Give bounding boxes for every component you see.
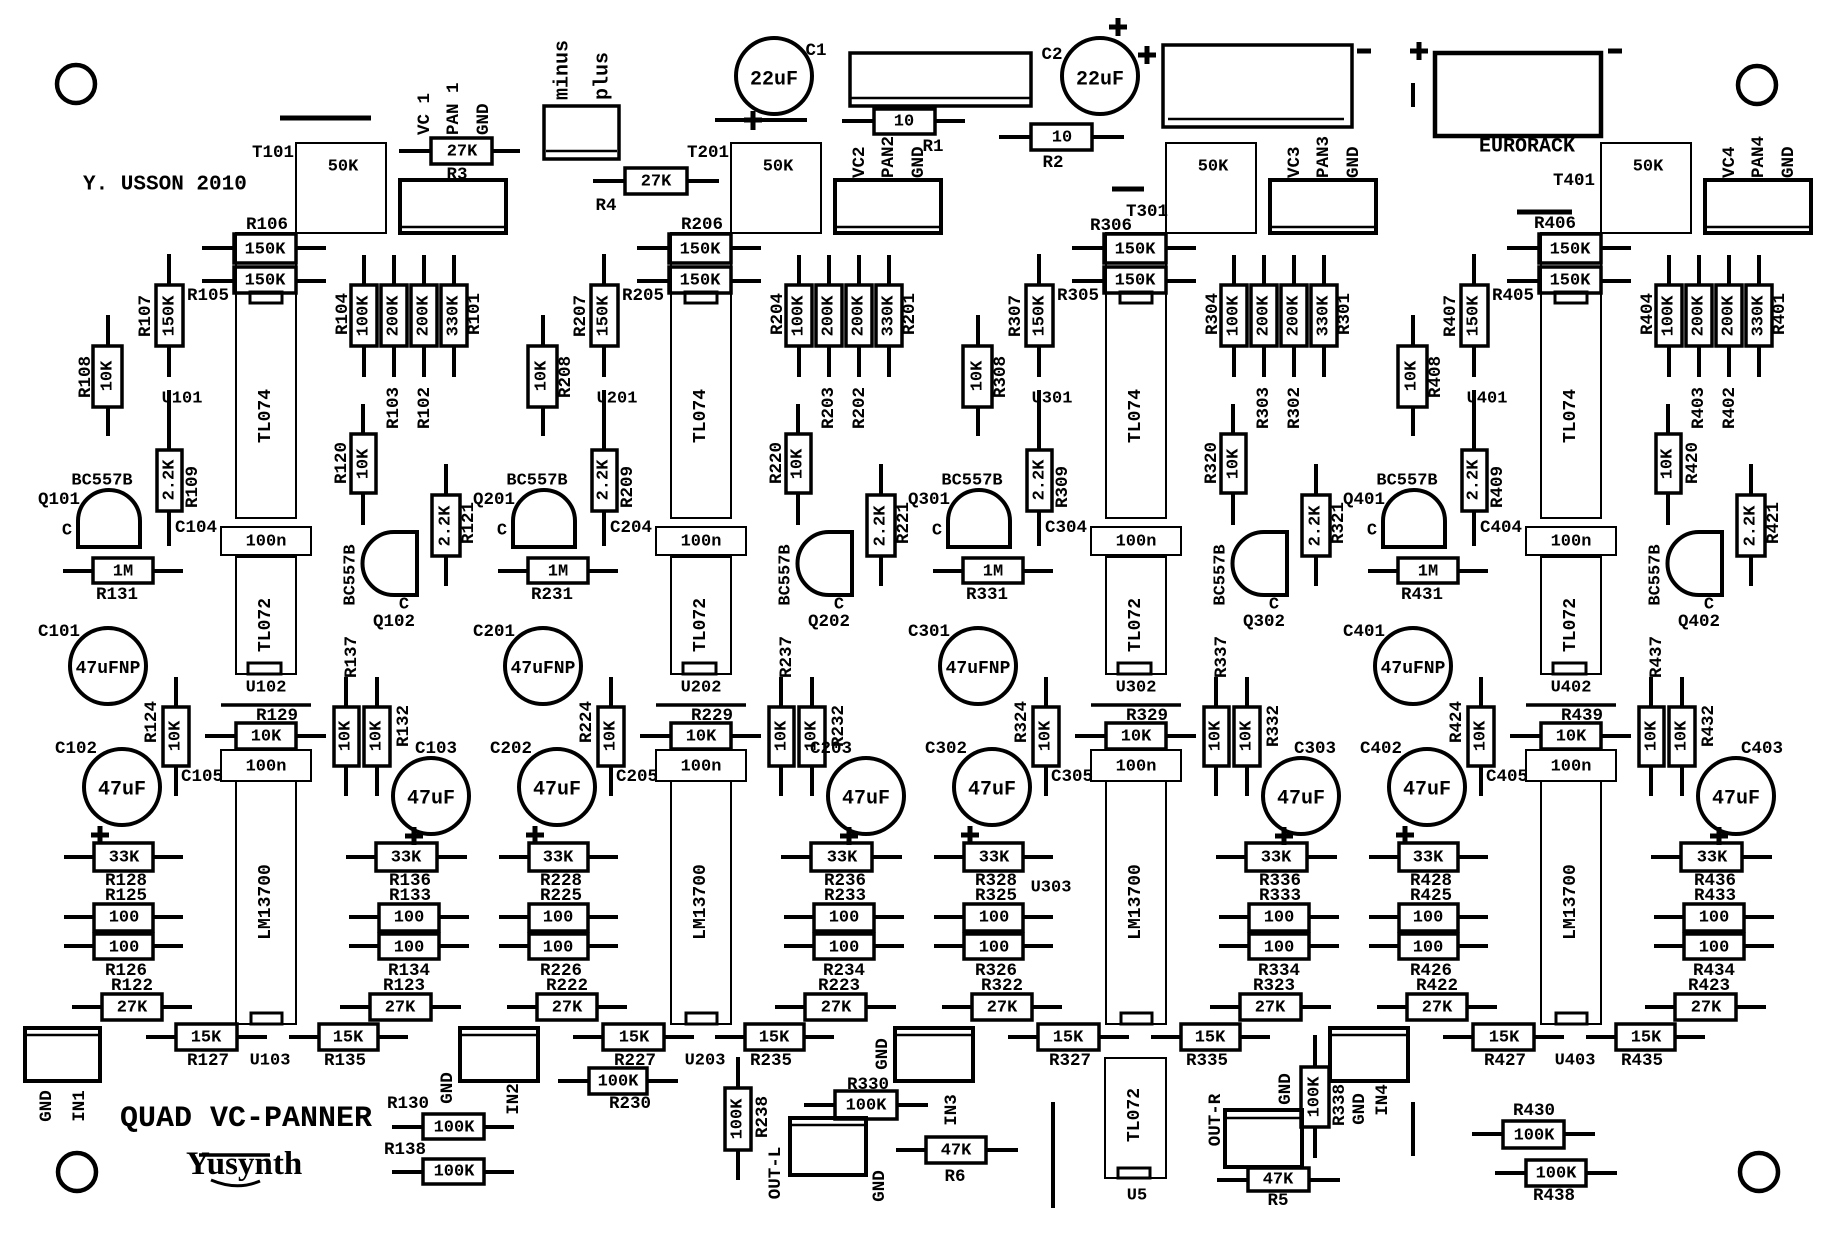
connector IN2 [460, 1028, 538, 1081]
svg-text:minus: minus [552, 40, 575, 100]
capacitor C105 [181, 750, 311, 787]
svg-text:PAN2: PAN2 [879, 136, 899, 178]
capacitor C401 [1343, 622, 1451, 704]
resistor R320 [1202, 404, 1246, 525]
capacitor C404 [1480, 518, 1616, 555]
resistor R4 [593, 168, 719, 216]
mounting hole top-left [57, 65, 95, 103]
svg-text:100n: 100n [1116, 758, 1157, 777]
transistor Q401 [1343, 472, 1445, 548]
minus mark above T301 [1112, 187, 1144, 192]
svg-text:GND: GND [1779, 146, 1799, 178]
resistor R129 [205, 706, 326, 749]
svg-text:GND: GND [474, 103, 494, 135]
IC U103 [236, 781, 296, 1071]
svg-text:R103: R103 [384, 387, 404, 429]
svg-text:C: C [932, 522, 942, 541]
svg-text:R122: R122 [111, 976, 153, 996]
resistor R201 [876, 255, 920, 377]
svg-text:BC557B: BC557B [941, 472, 1002, 491]
svg-text:100K: 100K [790, 295, 809, 337]
svg-text:BC557B: BC557B [342, 544, 361, 605]
svg-text:R109: R109 [183, 466, 203, 508]
connector IN4 [1330, 1028, 1408, 1081]
resistor R206 [637, 215, 761, 263]
transistor Q301 [908, 472, 1010, 548]
svg-text:47K: 47K [1263, 1171, 1294, 1190]
svg-text:R323: R323 [1253, 976, 1295, 996]
svg-text:TL074: TL074 [1561, 389, 1581, 443]
svg-text:T201: T201 [687, 143, 729, 163]
resistor R3 [399, 138, 520, 185]
svg-text:27K: 27K [447, 143, 478, 162]
plus mark C403 [1710, 827, 1728, 845]
svg-text:R320: R320 [1202, 442, 1222, 484]
op-amp U402 [1541, 557, 1601, 698]
svg-text:33K: 33K [1261, 849, 1292, 868]
svg-text:IN3: IN3 [942, 1094, 962, 1126]
capacitor C1 [736, 38, 827, 114]
resistor R431 [1368, 558, 1488, 605]
resistor R104 [333, 255, 377, 377]
svg-text:R4: R4 [595, 196, 616, 216]
svg-text:T101: T101 [252, 143, 294, 163]
svg-text:27K: 27K [385, 999, 416, 1018]
svg-text:R403: R403 [1689, 387, 1709, 429]
svg-text:10: 10 [1052, 129, 1072, 148]
svg-text:R2: R2 [1042, 153, 1063, 173]
resistor R425 [1369, 886, 1488, 931]
svg-text:100K: 100K [434, 1119, 476, 1138]
svg-text:10K: 10K [1659, 448, 1678, 479]
label R403 [1689, 387, 1709, 429]
svg-text:R421: R421 [1764, 502, 1784, 544]
resistor R333 [1219, 886, 1339, 931]
svg-text:IN1: IN1 [70, 1090, 90, 1122]
net label VC4 [1720, 146, 1740, 178]
svg-text:GND: GND [870, 1170, 890, 1202]
plus mark C402 [1396, 826, 1414, 844]
svg-text:200K: 200K [1720, 295, 1739, 337]
svg-text:R309: R309 [1053, 466, 1073, 508]
svg-text:R337: R337 [1212, 636, 1232, 678]
svg-text:VC4: VC4 [1720, 146, 1740, 178]
text EURORACK [1479, 136, 1575, 159]
power header J2 [1163, 45, 1352, 127]
svg-text:Q101: Q101 [38, 490, 80, 510]
resistor R120 [332, 404, 376, 525]
resistor R329 [1075, 706, 1196, 749]
resistor R231 [498, 558, 618, 605]
svg-text:2.2K: 2.2K [1307, 505, 1326, 547]
svg-text:R322: R322 [981, 976, 1023, 996]
resistor R303 [1251, 255, 1277, 377]
svg-text:150K: 150K [1115, 241, 1157, 260]
svg-text:27K: 27K [1255, 999, 1286, 1018]
svg-text:TL072: TL072 [1126, 598, 1146, 652]
svg-text:R331: R331 [966, 585, 1008, 605]
svg-text:100n: 100n [1551, 533, 1592, 552]
svg-text:10K: 10K [99, 360, 118, 391]
svg-text:R137: R137 [342, 636, 362, 678]
svg-text:R432: R432 [1699, 705, 1719, 747]
resistor R334 [1219, 934, 1339, 981]
wire top-left rail [280, 116, 371, 121]
svg-text:C301: C301 [908, 622, 950, 642]
svg-text:15K: 15K [1631, 1029, 1662, 1048]
svg-text:R6: R6 [944, 1167, 965, 1187]
svg-text:150K: 150K [1115, 272, 1157, 291]
net label GND pot header ch4 [1779, 146, 1799, 178]
net label GND OUT-L [870, 1170, 890, 1202]
svg-text:C304: C304 [1045, 518, 1087, 538]
svg-text:100n: 100n [1116, 533, 1157, 552]
svg-text:BC557B: BC557B [1647, 544, 1666, 605]
resistor R131 [63, 558, 183, 605]
minus mark right of J2 [1357, 49, 1371, 54]
svg-text:Q102: Q102 [373, 612, 415, 632]
svg-text:47uF: 47uF [1403, 779, 1451, 802]
svg-text:VC3: VC3 [1285, 146, 1305, 178]
resistor R5 [1217, 1168, 1340, 1211]
capacitor C304 [1045, 518, 1181, 555]
resistor R209 [592, 390, 638, 546]
resistor R128 [64, 843, 183, 891]
capacitor C305 [1051, 750, 1181, 787]
svg-text:C205: C205 [616, 767, 658, 787]
svg-text:R223: R223 [818, 976, 860, 996]
plus mark left of EURORACK header [1410, 42, 1428, 60]
svg-text:BC557B: BC557B [506, 472, 567, 491]
resistor R234 [784, 934, 904, 981]
svg-text:2.2K: 2.2K [1031, 459, 1050, 501]
svg-text:LM13700: LM13700 [691, 864, 711, 940]
svg-text:33K: 33K [543, 849, 574, 868]
svg-text:R303: R303 [1254, 387, 1274, 429]
svg-text:100: 100 [543, 939, 574, 958]
svg-text:150K: 150K [161, 295, 180, 337]
svg-text:100K: 100K [355, 295, 374, 337]
svg-text:10K: 10K [1472, 720, 1491, 751]
svg-text:150K: 150K [1550, 272, 1592, 291]
svg-text:100: 100 [829, 939, 860, 958]
plus mark C102 [91, 826, 109, 844]
resistor R428 [1369, 843, 1488, 891]
label R203 [819, 387, 839, 429]
net label GND pot header ch1 [474, 103, 494, 135]
resistor R230 [558, 1068, 678, 1114]
minus mark above R406 [1517, 210, 1572, 215]
resistor R106 [202, 215, 326, 263]
svg-text:150K: 150K [595, 295, 614, 337]
wire above R229 [656, 703, 746, 707]
resistor R132 [364, 677, 414, 796]
net label IN1 [70, 1090, 90, 1122]
IC U203 [671, 781, 731, 1071]
net label IN2 [504, 1083, 524, 1115]
svg-text:C102: C102 [55, 739, 97, 759]
svg-text:R308: R308 [991, 356, 1011, 398]
svg-text:OUT-L: OUT-L [766, 1147, 786, 1200]
svg-text:10K: 10K [1673, 720, 1692, 751]
net label VC3 [1285, 146, 1305, 178]
resistor R327 [1008, 1024, 1129, 1071]
svg-text:1M: 1M [113, 563, 133, 582]
svg-text:47K: 47K [941, 1142, 972, 1161]
wire below IN4 [1411, 1102, 1415, 1156]
connector header VC1/PAN1/GND [400, 180, 506, 233]
svg-text:R233: R233 [824, 886, 866, 906]
resistor R422 [1377, 976, 1497, 1020]
resistor R301 [1311, 255, 1355, 377]
resistor R436 [1651, 843, 1772, 891]
svg-text:150K: 150K [680, 241, 722, 260]
resistor R6 [896, 1137, 1018, 1187]
svg-text:27K: 27K [987, 999, 1018, 1018]
resistor R337 [1204, 636, 1232, 796]
svg-text:10K: 10K [355, 448, 374, 479]
svg-text:U403: U403 [1555, 1052, 1596, 1071]
resistor R125 [64, 886, 183, 931]
svg-text:LM13700: LM13700 [1126, 864, 1146, 940]
svg-text:GND: GND [438, 1072, 458, 1104]
svg-text:100: 100 [979, 939, 1010, 958]
svg-text:100: 100 [979, 909, 1010, 928]
svg-text:100K: 100K [434, 1163, 476, 1182]
svg-text:10K: 10K [251, 728, 282, 747]
resistor R135 [289, 1024, 408, 1071]
svg-text:100K: 100K [729, 1098, 748, 1140]
svg-text:Q401: Q401 [1343, 490, 1385, 510]
svg-text:47uFNP: 47uFNP [946, 659, 1011, 679]
svg-text:100K: 100K [846, 1097, 888, 1116]
svg-text:R304: R304 [1203, 293, 1223, 335]
svg-text:50K: 50K [1198, 158, 1229, 177]
resistor R223 [775, 976, 896, 1020]
capacitor C202 [490, 739, 595, 825]
resistor R1 [842, 109, 965, 157]
resistor R103 [381, 255, 407, 377]
net label PAN4 [1749, 136, 1769, 178]
svg-text:10K: 10K [1403, 360, 1422, 391]
svg-text:2.2K: 2.2K [1465, 459, 1484, 501]
capacitor C2 [1041, 38, 1138, 114]
svg-text:C101: C101 [38, 622, 80, 642]
capacitor C104 [175, 518, 311, 555]
resistor R401 [1746, 255, 1790, 377]
svg-text:R104: R104 [333, 293, 353, 335]
text Y. USSON 2010 [83, 174, 247, 197]
resistor R101 [441, 255, 485, 377]
svg-text:200K: 200K [415, 295, 434, 337]
svg-text:R435: R435 [1621, 1051, 1663, 1071]
svg-text:R401: R401 [1770, 293, 1790, 335]
svg-text:plus: plus [592, 52, 615, 100]
svg-text:100: 100 [1413, 939, 1444, 958]
resistor R331 [933, 558, 1053, 605]
mounting hole bottom-left [58, 1153, 96, 1191]
svg-text:100: 100 [1699, 939, 1730, 958]
svg-text:150K: 150K [1031, 295, 1050, 337]
svg-text:R439: R439 [1561, 706, 1603, 726]
svg-text:47uF: 47uF [1277, 788, 1325, 811]
net label GND IN4 [1350, 1093, 1370, 1125]
resistor R332 [1234, 677, 1284, 796]
svg-text:U303: U303 [1031, 879, 1072, 898]
net label GND OUT-R [1276, 1073, 1296, 1105]
minus bar below plus mark [1411, 83, 1415, 107]
svg-text:R203: R203 [819, 387, 839, 429]
resistor R224 [577, 677, 624, 796]
net label PAN1 [444, 82, 464, 135]
resistor R226 [499, 934, 618, 981]
svg-text:10K: 10K [803, 720, 822, 751]
plus mark C302 [961, 826, 979, 844]
svg-text:PAN3: PAN3 [1314, 136, 1334, 178]
svg-text:33K: 33K [827, 849, 858, 868]
svg-text:47uF: 47uF [98, 779, 146, 802]
svg-text:R205: R205 [622, 286, 664, 306]
resistor R437 [1639, 636, 1667, 796]
svg-text:R431: R431 [1401, 585, 1443, 605]
svg-text:R130: R130 [387, 1094, 429, 1114]
svg-text:47uF: 47uF [533, 779, 581, 802]
svg-text:R327: R327 [1049, 1051, 1091, 1071]
svg-text:R120: R120 [332, 442, 352, 484]
svg-text:Q202: Q202 [808, 612, 850, 632]
resistor R235 [715, 1024, 834, 1071]
svg-text:IN2: IN2 [504, 1083, 524, 1115]
resistor R421 [1737, 464, 1784, 586]
svg-text:R332: R332 [1264, 705, 1284, 747]
svg-text:R129: R129 [256, 706, 298, 726]
svg-text:C303: C303 [1294, 739, 1336, 759]
svg-text:R425: R425 [1410, 886, 1452, 906]
svg-text:R102: R102 [415, 387, 435, 429]
svg-text:R225: R225 [540, 886, 582, 906]
resistor R134 [349, 934, 469, 981]
resistor R2 [999, 124, 1124, 173]
net label GND IN2 [438, 1072, 458, 1104]
eurorack power header [1435, 53, 1601, 136]
svg-text:10K: 10K [167, 720, 186, 751]
svg-text:VC 1: VC 1 [415, 93, 435, 135]
svg-text:C: C [497, 522, 507, 541]
potentiometer T101 [252, 143, 386, 233]
svg-text:LM13700: LM13700 [256, 864, 276, 940]
resistor R202 [846, 255, 872, 377]
wire C1 negative rail [715, 118, 807, 122]
resistor R107 [136, 254, 183, 377]
resistor R237 [769, 636, 797, 796]
resistor R220 [767, 404, 811, 525]
svg-text:R123: R123 [383, 976, 425, 996]
svg-text:TL072: TL072 [1125, 1088, 1145, 1142]
svg-text:R208: R208 [556, 356, 576, 398]
resistor R309 [1027, 390, 1073, 546]
net label VC2 [850, 146, 870, 178]
resistor R406 [1507, 214, 1631, 263]
connector IN3 [895, 1028, 973, 1081]
svg-text:C402: C402 [1360, 739, 1402, 759]
svg-text:C: C [1367, 522, 1377, 541]
svg-text:R423: R423 [1688, 976, 1730, 996]
svg-text:R408: R408 [1426, 356, 1446, 398]
svg-text:47uF: 47uF [842, 788, 890, 811]
plus mark C1 [744, 111, 762, 130]
resistor R427 [1443, 1024, 1564, 1071]
svg-text:R105: R105 [187, 286, 229, 306]
label R402 [1720, 387, 1740, 429]
resistor R328 [934, 843, 1053, 891]
svg-text:GND: GND [909, 146, 929, 178]
svg-text:C405: C405 [1486, 767, 1528, 787]
svg-text:R301: R301 [1335, 293, 1355, 335]
svg-text:10K: 10K [1037, 720, 1056, 751]
resistor R124 [142, 677, 189, 796]
svg-text:U202: U202 [681, 679, 722, 698]
svg-text:R229: R229 [691, 706, 733, 726]
svg-text:GND: GND [1276, 1073, 1296, 1105]
resistor R323 [1210, 976, 1331, 1020]
svg-text:R235: R235 [750, 1051, 792, 1071]
resistor R426 [1369, 934, 1488, 981]
capacitor C101 [38, 622, 146, 704]
svg-text:330K: 330K [880, 295, 899, 337]
svg-text:R132: R132 [394, 705, 414, 747]
svg-text:150K: 150K [1550, 241, 1592, 260]
capacitor C205 [616, 750, 746, 787]
svg-text:47uFNP: 47uFNP [76, 659, 141, 679]
svg-text:15K: 15K [333, 1029, 364, 1048]
net label GND pot header ch3 [1344, 146, 1364, 178]
svg-text:15K: 15K [1053, 1029, 1084, 1048]
svg-text:LM13700: LM13700 [1561, 864, 1581, 940]
svg-text:10K: 10K [533, 360, 552, 391]
potentiometer T401 [1553, 143, 1691, 233]
capacitor C302 [925, 739, 1030, 825]
svg-text:GND: GND [873, 1038, 893, 1070]
net label IN4 [1373, 1084, 1393, 1116]
svg-text:100K: 100K [1306, 1076, 1325, 1118]
resistor R420 [1656, 404, 1703, 525]
svg-text:C204: C204 [610, 518, 652, 538]
svg-text:TL074: TL074 [1126, 389, 1146, 443]
svg-text:R135: R135 [324, 1051, 366, 1071]
svg-text:R222: R222 [546, 976, 588, 996]
resistor R121 [432, 464, 479, 586]
svg-text:R230: R230 [609, 1094, 651, 1114]
svg-text:R305: R305 [1057, 286, 1099, 306]
transistor Q101 [38, 472, 140, 548]
transistor Q201 [473, 472, 575, 548]
resistor R222 [507, 976, 627, 1020]
connector header VC3/PAN3/GND [1270, 180, 1376, 233]
power header J1 [850, 53, 1031, 106]
transistor Q302 [1212, 532, 1288, 632]
svg-text:U302: U302 [1116, 679, 1157, 698]
capacitor C301 [908, 622, 1016, 704]
wire above R329 [1091, 703, 1181, 707]
svg-text:15K: 15K [1489, 1029, 1520, 1048]
svg-text:R333: R333 [1259, 886, 1301, 906]
svg-text:330K: 330K [445, 295, 464, 337]
svg-text:100: 100 [1264, 939, 1295, 958]
svg-text:VC2: VC2 [850, 146, 870, 178]
svg-text:330K: 330K [1750, 295, 1769, 337]
svg-text:27K: 27K [117, 999, 148, 1018]
resistor R227 [573, 1024, 694, 1071]
